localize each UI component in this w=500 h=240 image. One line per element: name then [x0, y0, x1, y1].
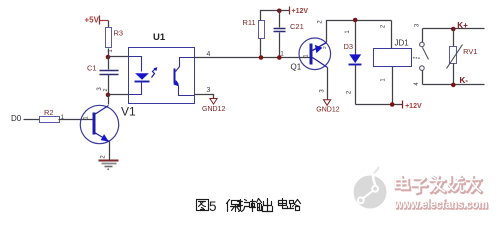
- wire D0 to R2: [24, 119, 40, 121]
- svg-text:2: 2: [103, 88, 109, 91]
- ground GND12 (Q1): [316, 100, 339, 114]
- wire node B down to V1 collector: [108, 95, 110, 105]
- glyph 出: [263, 199, 273, 212]
- wire U1 pin 4 to Q1 base: [195, 51, 311, 58]
- capacitor C21: [274, 11, 304, 58]
- node A junction R3/C1/U1-pin1: [106, 49, 114, 60]
- wire node B to U1 pin 2: [109, 94, 129, 96]
- svg-text:3: 3: [414, 23, 420, 27]
- node H junction RV1/K+: [451, 27, 456, 32]
- wire U1 pin 3 to GND12: [195, 87, 214, 99]
- svg-text:K+: K+: [457, 21, 468, 30]
- svg-text:U1: U1: [153, 32, 166, 43]
- watermark logo circle: [354, 168, 387, 209]
- svg-text:1: 1: [381, 78, 387, 82]
- wire V1 emitter to ground: [101, 142, 110, 161]
- svg-text:4: 4: [207, 51, 211, 58]
- resistor R2: [40, 108, 65, 123]
- LED inside U1: [129, 57, 150, 95]
- node F junction D3 tap: [353, 18, 358, 23]
- resistor R3: [106, 28, 124, 48]
- svg-text:R11: R11: [243, 18, 256, 27]
- svg-text:+5V: +5V: [85, 16, 100, 25]
- svg-text:3: 3: [320, 89, 326, 93]
- node G junction coil/+12V: [390, 102, 395, 107]
- ground GND12 (U1): [202, 99, 225, 114]
- svg-text:V1: V1: [121, 105, 136, 119]
- svg-text:RV1: RV1: [463, 47, 477, 56]
- svg-text:R2: R2: [44, 108, 54, 117]
- transistor Q1: [291, 38, 331, 72]
- svg-text:3: 3: [207, 87, 211, 94]
- svg-text:C21: C21: [290, 22, 304, 31]
- svg-text:1: 1: [304, 54, 310, 58]
- transistor V1: [80, 105, 136, 144]
- node D junction R11/base wire: [259, 55, 264, 60]
- node I junction RV1/K-: [451, 83, 456, 88]
- optocoupler U1 box: [129, 32, 195, 104]
- svg-text:1: 1: [84, 116, 90, 120]
- caption 图5 保护输出电路 (hand-drawn glyphs): [197, 199, 301, 215]
- light arrow inside U1: [152, 67, 158, 77]
- svg-text:GND12: GND12: [202, 106, 225, 113]
- wire R3 to node A: [108, 49, 110, 57]
- wire Q1 collector to GND12: [320, 68, 328, 100]
- power +12V bottom: [403, 101, 422, 110]
- svg-text:C1: C1: [87, 63, 97, 72]
- varistor RV1: [447, 29, 478, 85]
- capacitor C1: [87, 57, 119, 95]
- glyph 护: [238, 200, 250, 212]
- node B junction C1/U1-pin2/V1-collector: [97, 87, 110, 98]
- glyph 电: [279, 199, 288, 209]
- relay contact pins 3/4: [414, 23, 429, 86]
- svg-text:+12V: +12V: [292, 8, 309, 15]
- node E junction C21/base wire, pin 1 of Q1: [277, 50, 284, 60]
- svg-text:4: 4: [414, 82, 420, 86]
- watermark url: [394, 199, 489, 212]
- svg-text:2: 2: [381, 24, 387, 28]
- svg-text:2: 2: [101, 155, 107, 159]
- svg-text:D0: D0: [11, 114, 22, 123]
- svg-text:D3: D3: [344, 42, 354, 51]
- wire K+ rail: [423, 21, 485, 30]
- svg-text:5: 5: [209, 199, 217, 214]
- wire +5V to R3: [100, 20, 109, 22]
- svg-text:1: 1: [280, 50, 284, 57]
- wire K- rail: [423, 76, 485, 85]
- ground (earth) under V1: [99, 161, 119, 171]
- svg-text:K-: K-: [460, 76, 469, 85]
- power +12V top: [280, 7, 309, 16]
- glyph 输: [250, 199, 262, 212]
- glyph 保: [227, 200, 241, 212]
- svg-text:Q1: Q1: [291, 63, 302, 72]
- svg-text:www.elecfans.com: www.elecfans.com: [394, 199, 488, 211]
- glyph 图: [197, 200, 209, 211]
- svg-text:2: 2: [317, 20, 323, 24]
- phototransistor inside U1: [173, 58, 194, 96]
- power +5V: [85, 16, 100, 25]
- svg-text:2: 2: [322, 46, 328, 49]
- wire Q1 emitter up to relay branch: [317, 20, 391, 43]
- wire R2 to V1 base: [59, 119, 93, 121]
- linkage dashed to coil: [413, 57, 420, 59]
- resistor R11: [243, 11, 280, 58]
- glyph 路: [289, 200, 301, 211]
- svg-text:1: 1: [345, 30, 351, 34]
- svg-text:R3: R3: [114, 29, 124, 38]
- relay coil JD1: [374, 21, 412, 105]
- svg-text:2: 2: [347, 90, 353, 94]
- wire node A to U1 pin 1: [109, 56, 129, 58]
- svg-text:JD1: JD1: [395, 38, 410, 47]
- svg-text:GND12: GND12: [316, 107, 339, 114]
- node C +12V feed: [277, 9, 282, 14]
- diode D3: [344, 21, 362, 105]
- wire coil to +12V bottom: [356, 104, 403, 106]
- svg-text:+12V: +12V: [405, 103, 422, 110]
